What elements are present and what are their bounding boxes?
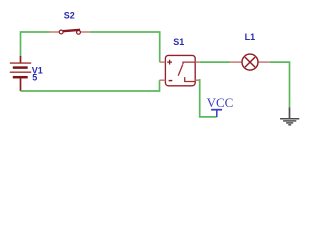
pin - (bottom-left) [160,79,166,81]
pin + (top-left) [160,61,166,63]
relay S1 (voltage-controlled switch) [160,55,200,85]
bottom lead [20,78,22,91]
pin out bottom-right [195,79,199,81]
battery V1 [10,56,31,91]
body [165,55,195,85]
plate short 2 [13,76,28,79]
cross stroke 2 [245,57,255,67]
bar [211,109,222,111]
wire: top rail left segment (battery top to switch S2 left pin) [21,32,50,57]
cross stroke 1 [245,57,255,67]
svg-text:VCC: VCC [207,95,234,110]
plus mark [167,60,172,65]
svg-text:S1: S1 [173,37,184,47]
plate short 1 [13,66,28,69]
plate long 2 [10,71,31,73]
wire: lamp to ground rail [270,62,290,107]
pin left [50,31,60,33]
lamp L1 [230,54,270,70]
wire: S1 bottom pin to VCC [200,79,217,117]
stub [216,110,218,117]
svg-text:5: 5 [32,73,37,83]
pin right [80,31,90,33]
ground [280,108,299,125]
lever [63,30,80,31]
plate long 1 [10,62,31,64]
svg-text:S2: S2 [64,10,75,20]
top lead [20,56,22,63]
minus mark [169,80,173,82]
switch S2 [50,30,91,34]
svg-text:L1: L1 [245,32,256,42]
wire: S1 output to lamp L1 [200,61,231,63]
pin left [230,61,242,63]
contact top line [183,62,195,64]
contact circle right [77,30,81,34]
wire: bottom rail (battery bottom to S1 - pin) [21,80,160,91]
pin out top-right [195,61,199,63]
wire: top rail right segment (switch S2 right pin to S1 + pin) [90,32,160,62]
contact bottom line with tick [185,77,196,81]
contact circle left [59,30,63,34]
contact lever [178,64,183,75]
power VCC [211,110,222,117]
pin right [258,61,269,63]
bulb circle [242,54,258,70]
